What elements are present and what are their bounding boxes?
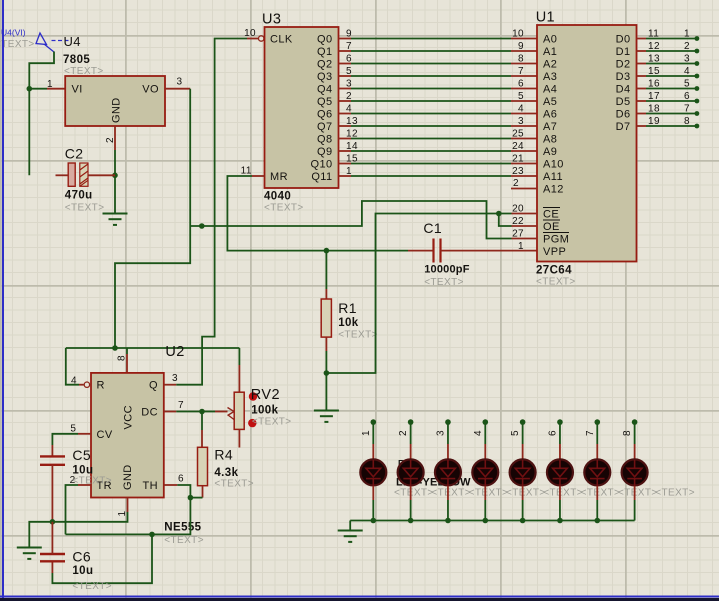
- svg-text:A1: A1: [543, 46, 557, 58]
- svg-text:A3: A3: [543, 71, 557, 83]
- wire C1 to VPP: [441, 250, 538, 252]
- LED D4: [472, 459, 498, 485]
- EPROM U1 27C64 body: [537, 25, 637, 262]
- node bus D7: [594, 518, 600, 524]
- svg-text:A10: A10: [543, 159, 564, 171]
- red marker bottom: [248, 419, 256, 427]
- svg-text:<TEXT>: <TEXT>: [581, 488, 621, 499]
- wire bus to ground: [349, 521, 351, 531]
- svg-text:8: 8: [117, 355, 128, 361]
- svg-text:1: 1: [684, 29, 690, 40]
- node R1 top junction: [324, 248, 330, 254]
- pin 3 stub VO: [165, 88, 190, 90]
- svg-text:13: 13: [648, 54, 660, 65]
- svg-text:12: 12: [648, 41, 660, 52]
- C6 top lead: [51, 522, 53, 554]
- svg-text:<TEXT>: <TEXT>: [252, 417, 292, 428]
- wire CE/OE to gnd net: [326, 214, 511, 374]
- pin 2 stub TR: [78, 484, 91, 486]
- svg-text:Q7: Q7: [317, 121, 332, 133]
- svg-text:CV: CV: [97, 429, 113, 441]
- wire DC to wiper: [202, 411, 215, 413]
- wire rail to R pin: [66, 348, 79, 385]
- svg-text:D4: D4: [616, 84, 631, 96]
- capacitor C5: [40, 456, 65, 464]
- svg-text:D7: D7: [616, 121, 631, 133]
- LED D3: [435, 459, 461, 485]
- svg-text:22: 22: [512, 216, 524, 227]
- wire terminal 3 to LED D3: [445, 419, 451, 425]
- svg-text:2: 2: [684, 41, 690, 52]
- svg-text:6: 6: [178, 474, 184, 485]
- pin 8 stub VCC: [126, 354, 128, 373]
- svg-text:Q2: Q2: [317, 59, 332, 71]
- svg-text:2: 2: [398, 430, 409, 436]
- wire to OE: [499, 214, 512, 227]
- LED D2: [398, 459, 424, 485]
- ground LED bus: [338, 531, 363, 542]
- svg-text:1: 1: [361, 430, 372, 436]
- wire VO down to rail: [115, 89, 190, 348]
- svg-text:4.3k: 4.3k: [214, 467, 238, 479]
- node bus D3: [445, 518, 451, 524]
- svg-text:3: 3: [518, 116, 524, 127]
- svg-text:D2: D2: [616, 59, 631, 71]
- svg-text:6: 6: [518, 79, 524, 90]
- svg-text:GND: GND: [111, 97, 123, 123]
- pin 4 stub R: [79, 384, 84, 386]
- svg-text:<TEXT>: <TEXT>: [264, 203, 304, 214]
- svg-text:25: 25: [512, 129, 524, 140]
- wire to C1: [326, 250, 408, 252]
- node VI junction: [27, 86, 33, 92]
- svg-text:C5: C5: [72, 447, 91, 463]
- wire terminal 2 to LED D2: [408, 419, 414, 425]
- node bus D6: [557, 518, 563, 524]
- svg-text:<TEXT>: <TEXT>: [164, 535, 204, 546]
- svg-text:<TEXT>: <TEXT>: [64, 66, 104, 77]
- svg-text:<TEXT>: <TEXT>: [431, 488, 471, 499]
- C2 left lead: [56, 174, 69, 176]
- svg-text:GND: GND: [122, 464, 134, 490]
- svg-text:R1: R1: [338, 300, 357, 316]
- LED D6: [547, 459, 573, 485]
- CLK stub: [247, 38, 258, 40]
- svg-text:10k: 10k: [338, 317, 359, 329]
- node C2 junction: [112, 173, 118, 179]
- pin 1 stub of U4: [47, 88, 65, 90]
- pin Q1 row / wire Q1 to A1: [339, 50, 352, 52]
- svg-text:A0: A0: [543, 34, 557, 46]
- wire R4 to TH: [190, 497, 202, 499]
- wire probe to VI/C2: [29, 52, 54, 176]
- LED D8: [622, 459, 648, 485]
- svg-text:A2: A2: [543, 59, 557, 71]
- pin Q0 row / wire Q0 to A0: [339, 38, 352, 40]
- pin 6 stub TH: [164, 484, 178, 486]
- svg-text:U4(VI): U4(VI): [1, 27, 26, 37]
- svg-text:VO: VO: [142, 84, 159, 96]
- svg-text:<TEXT>: <TEXT>: [65, 203, 105, 214]
- svg-text:<TEXT>: <TEXT>: [338, 330, 378, 341]
- capacitor C1: [434, 239, 441, 263]
- svg-text:VPP: VPP: [543, 246, 566, 258]
- svg-text:3: 3: [684, 54, 690, 65]
- svg-text:4: 4: [473, 430, 484, 436]
- pin 1 stub GND U2: [127, 498, 129, 513]
- node TH/R4 junction: [188, 495, 194, 501]
- pot RV2 body: [234, 392, 244, 429]
- svg-text:A12: A12: [543, 184, 564, 196]
- pin 5 stub CV: [78, 433, 91, 435]
- svg-text:18: 18: [648, 104, 660, 115]
- svg-text:24: 24: [512, 141, 524, 152]
- ground near U4: [103, 214, 128, 225]
- svg-text:A7: A7: [543, 121, 557, 133]
- wire TH net down-left: [66, 498, 191, 535]
- svg-text:19: 19: [648, 116, 660, 127]
- pin D7 row / wire D7 to terminal 8: [637, 125, 647, 127]
- svg-text:A8: A8: [543, 134, 557, 146]
- svg-text:5: 5: [70, 424, 76, 435]
- svg-text:7: 7: [178, 400, 184, 411]
- svg-text:Q0: Q0: [317, 34, 332, 46]
- pin D2 row / wire D2 to terminal 3: [637, 63, 647, 65]
- svg-text:<TEXT>: <TEXT>: [506, 488, 546, 499]
- wire terminal 4 to LED D4: [482, 419, 488, 425]
- pin MR wire to MR net: [252, 175, 265, 177]
- svg-text:10u: 10u: [72, 565, 93, 577]
- C2 right lead: [88, 174, 115, 176]
- node bus D1: [371, 518, 377, 524]
- capacitor C6: [40, 554, 65, 561]
- pin Q6 row / wire Q6 to A6: [339, 113, 352, 115]
- wire R1 to gnd net: [325, 351, 327, 373]
- wire GND to C2: [114, 150, 116, 175]
- timer U2 NE555 body: [91, 373, 164, 498]
- svg-text:Q: Q: [149, 380, 158, 392]
- pin Q4 row / wire Q4 to A4: [339, 88, 352, 90]
- svg-text:27: 27: [512, 229, 524, 240]
- svg-text:1: 1: [346, 166, 352, 177]
- svg-text:D0: D0: [616, 34, 631, 46]
- node DC junction: [199, 409, 205, 415]
- svg-text:DC: DC: [141, 407, 158, 419]
- svg-text:7: 7: [684, 104, 690, 115]
- wire TH: [177, 485, 190, 498]
- pin Q11 row / wire Q11 to A11: [339, 175, 352, 177]
- wire 5V branch to PGM: [190, 201, 511, 239]
- svg-text:3: 3: [435, 430, 446, 436]
- C5 top lead: [51, 445, 53, 456]
- pin Q9 row / wire Q9 to A9: [339, 150, 352, 152]
- pin D4 row / wire D4 to terminal 5: [637, 88, 647, 90]
- svg-text:470u: 470u: [65, 190, 93, 202]
- pin A12 stub: [511, 188, 537, 190]
- resistor R1: [325, 251, 327, 289]
- svg-text:<TEXT>: <TEXT>: [469, 488, 509, 499]
- wire terminal 5 to LED D5: [520, 419, 526, 425]
- svg-text:7: 7: [518, 66, 524, 77]
- svg-text:Q9: Q9: [317, 146, 332, 158]
- LED cathode bus: [350, 520, 634, 522]
- svg-text:U1: U1: [536, 10, 555, 26]
- node bus D5: [520, 518, 526, 524]
- wire VCC stub: [126, 348, 128, 354]
- wire Q to CLK: [176, 39, 247, 385]
- wire TR down: [66, 485, 79, 534]
- pin D6 row / wire D6 to terminal 7: [637, 113, 647, 115]
- svg-text:27C64: 27C64: [536, 265, 572, 277]
- pin Q3 row / wire Q3 to A3: [339, 75, 352, 77]
- svg-text:15: 15: [346, 154, 358, 165]
- LED D5: [510, 459, 536, 485]
- svg-text:8: 8: [684, 116, 690, 127]
- RV2 wiper arrow: [228, 408, 235, 416]
- wire GND to ground: [29, 512, 127, 548]
- svg-text:100k: 100k: [251, 405, 278, 417]
- svg-text:NE555: NE555: [164, 522, 201, 534]
- resistor R4 body: [198, 447, 208, 485]
- svg-text:<TEXT>: <TEXT>: [214, 479, 254, 490]
- node bus D2: [408, 518, 414, 524]
- LED D1: [360, 459, 386, 485]
- svg-text:D5: D5: [616, 96, 631, 108]
- svg-text:<TEXT>: <TEXT>: [72, 476, 112, 487]
- svg-text:2: 2: [346, 91, 352, 102]
- wire to C6 bottom: [52, 534, 152, 583]
- svg-text:Q4: Q4: [317, 84, 332, 96]
- svg-text:10: 10: [512, 29, 524, 40]
- node CE/OE junction: [496, 211, 502, 217]
- svg-text:8: 8: [518, 54, 524, 65]
- wire to pin1 VI: [29, 88, 47, 90]
- svg-text:10: 10: [244, 28, 256, 39]
- pin 7 stub DC: [164, 411, 177, 413]
- svg-text:<TEXT>: <TEXT>: [543, 488, 583, 499]
- svg-text:A4: A4: [543, 84, 557, 96]
- svg-text:6: 6: [684, 91, 690, 102]
- svg-text:<TEXT>: <TEXT>: [72, 581, 112, 592]
- regulator U4 7805 body: [65, 76, 165, 126]
- RV2 top lead: [238, 365, 240, 392]
- svg-text:4: 4: [346, 104, 352, 115]
- C6 bottom lead: [51, 561, 53, 573]
- voltage probe U4(VI): [36, 33, 70, 52]
- svg-text:D3: D3: [616, 71, 631, 83]
- counter U3 4040 body: [265, 27, 339, 188]
- svg-text:C6: C6: [72, 549, 91, 565]
- svg-text:4: 4: [518, 104, 524, 115]
- svg-text:5: 5: [684, 79, 690, 90]
- svg-text:5: 5: [518, 91, 524, 102]
- svg-text:6: 6: [346, 54, 352, 65]
- svg-text:4040: 4040: [264, 191, 291, 203]
- svg-text:U2: U2: [165, 344, 184, 360]
- svg-text:Q1: Q1: [317, 46, 332, 58]
- RV2 bottom lead: [238, 429, 240, 447]
- svg-text:Q10: Q10: [311, 159, 333, 171]
- svg-text:<TEXT>: <TEXT>: [655, 488, 695, 499]
- C1 left lead: [408, 250, 434, 252]
- wire terminal 8 to LED D8: [632, 419, 638, 425]
- sheet border left: [2, 0, 4, 601]
- svg-text:20: 20: [512, 204, 524, 215]
- svg-text:<TEXT>: <TEXT>: [394, 488, 434, 499]
- svg-text:<TEXT>: <TEXT>: [618, 488, 658, 499]
- svg-text:5: 5: [510, 430, 521, 436]
- svg-text:PGM: PGM: [543, 234, 569, 246]
- node ground rail C5: [50, 519, 56, 525]
- pin Q8 row / wire Q8 to A8: [339, 138, 352, 140]
- R4 bottom lead: [202, 486, 204, 498]
- svg-text:15: 15: [648, 66, 660, 77]
- svg-text:CLK: CLK: [270, 34, 293, 46]
- pin D0 row / wire D0 to terminal 1: [637, 38, 647, 40]
- svg-text:1: 1: [47, 79, 53, 90]
- pin 3 stub Q: [164, 384, 177, 386]
- node R1 bottom junction: [324, 370, 330, 376]
- svg-text:9: 9: [518, 41, 524, 52]
- 5V rail above U2: [66, 347, 240, 349]
- wire terminal 6 to LED D6: [557, 419, 563, 425]
- svg-text:3: 3: [346, 79, 352, 90]
- node rail/VO: [112, 345, 118, 351]
- svg-text:3: 3: [177, 77, 183, 88]
- wire to ground: [325, 373, 327, 411]
- wire terminal 7 to LED D7: [594, 419, 600, 425]
- pin D1 row / wire D1 to terminal 2: [637, 50, 647, 52]
- svg-text:1: 1: [117, 511, 128, 517]
- svg-text:D1: D1: [616, 46, 631, 58]
- svg-text:21: 21: [512, 154, 524, 165]
- wire DC to R4: [201, 412, 203, 431]
- wire DC: [176, 411, 202, 413]
- svg-text:A9: A9: [543, 146, 557, 158]
- wire terminal 1 to LED D1: [371, 419, 377, 425]
- svg-text:1: 1: [518, 241, 524, 252]
- svg-text:RV2: RV2: [251, 387, 280, 403]
- pin 2 stub GND of U4: [114, 126, 116, 150]
- svg-text:R4: R4: [214, 447, 233, 463]
- node on 5V branch: [199, 223, 205, 229]
- pin Q7 row / wire Q7 to A7: [339, 125, 352, 127]
- svg-text:MR: MR: [270, 171, 288, 183]
- svg-text:4: 4: [684, 66, 690, 77]
- svg-text:<TEXT>: <TEXT>: [0, 39, 35, 50]
- svg-text:6: 6: [547, 430, 558, 436]
- svg-text:CE: CE: [543, 209, 559, 221]
- R4 top lead: [201, 430, 203, 447]
- svg-text:A11: A11: [543, 171, 563, 183]
- svg-text:5: 5: [346, 66, 352, 77]
- svg-text:<TEXT>: <TEXT>: [424, 277, 464, 288]
- svg-text:7: 7: [585, 430, 596, 436]
- svg-text:13: 13: [346, 116, 358, 127]
- wire CV to C5: [52, 434, 78, 445]
- svg-text:11: 11: [241, 166, 252, 177]
- svg-text:VCC: VCC: [123, 405, 135, 429]
- inversion circle CLK: [259, 36, 264, 41]
- svg-text:A5: A5: [543, 96, 557, 108]
- wire to ground: [114, 175, 116, 213]
- ground bottom-left: [17, 548, 42, 559]
- svg-text:2: 2: [105, 137, 116, 143]
- pin Q10 row / wire Q10 to A10: [339, 163, 352, 165]
- svg-text:7805: 7805: [63, 54, 90, 66]
- svg-text:A6: A6: [543, 109, 557, 121]
- svg-text:VI: VI: [72, 84, 83, 96]
- pin D3 row / wire D3 to terminal 4: [637, 75, 647, 77]
- svg-text:10000pF: 10000pF: [424, 264, 470, 276]
- svg-text:9: 9: [346, 29, 352, 40]
- red marker top: [249, 392, 257, 400]
- svg-text:Q11: Q11: [311, 171, 332, 183]
- svg-text:Q5: Q5: [317, 96, 332, 108]
- node bus D4: [482, 518, 488, 524]
- svg-text:12: 12: [346, 129, 358, 140]
- svg-text:8: 8: [622, 430, 633, 436]
- pin Q5 row / wire Q5 to A5: [339, 100, 352, 102]
- svg-text:C2: C2: [65, 146, 84, 162]
- svg-text:U3: U3: [262, 12, 281, 28]
- svg-text:16: 16: [648, 79, 660, 90]
- inversion circle pin R: [84, 382, 89, 387]
- ground near R1: [314, 411, 339, 422]
- svg-text:14: 14: [346, 141, 358, 152]
- svg-text:Q3: Q3: [317, 71, 332, 83]
- pin D5 row / wire D5 to terminal 6: [637, 100, 647, 102]
- sheet border bottom: [0, 596, 719, 598]
- svg-text:23: 23: [512, 166, 524, 177]
- svg-text:Q8: Q8: [317, 134, 332, 146]
- svg-text:D6: D6: [616, 109, 631, 121]
- svg-text:Q6: Q6: [317, 109, 332, 121]
- svg-text:U4: U4: [64, 34, 81, 49]
- R1 bottom lead: [325, 337, 327, 351]
- svg-text:R: R: [97, 380, 105, 392]
- svg-text:4: 4: [71, 376, 77, 387]
- node TR-net/C6 junction: [149, 532, 155, 538]
- pin Q2 row / wire Q2 to A2: [339, 63, 352, 65]
- LED D7: [584, 459, 610, 485]
- C5 bottom lead: [51, 465, 53, 522]
- svg-text:<TEXT>: <TEXT>: [536, 277, 576, 288]
- svg-text:11: 11: [648, 29, 659, 40]
- wire rail to RV2: [238, 348, 240, 365]
- svg-text:2: 2: [513, 178, 519, 189]
- svg-text:TH: TH: [143, 480, 158, 492]
- svg-text:C1: C1: [423, 220, 442, 236]
- svg-text:7: 7: [346, 41, 352, 52]
- svg-text:17: 17: [648, 91, 660, 102]
- svg-text:OE: OE: [543, 221, 560, 233]
- svg-text:3: 3: [172, 373, 178, 384]
